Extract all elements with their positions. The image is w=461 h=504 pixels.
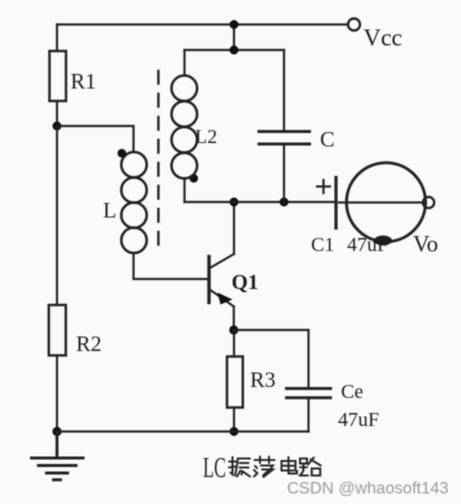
wire L2 top	[183, 50, 185, 76]
capacitor Ce	[287, 389, 331, 398]
node rail junction dot	[230, 20, 239, 29]
capacitor C	[259, 132, 310, 145]
wire tank bottom	[185, 201, 335, 203]
L phase dot	[118, 149, 127, 158]
wire L2 bottom	[183, 179, 185, 203]
wire emitter to Ce branch	[234, 329, 309, 331]
svg-text:Ce: Ce	[341, 381, 363, 403]
svg-text:CSDN @whaosoft143: CSDN @whaosoft143	[287, 480, 449, 498]
wire C branch bottom	[283, 146, 285, 203]
inductor L	[121, 152, 146, 253]
svg-text:Q1: Q1	[232, 270, 259, 294]
node C branch junction dot	[280, 198, 289, 207]
dashed core line	[157, 71, 159, 250]
wire rail link	[233, 25, 235, 51]
wire node A to L top	[57, 126, 134, 152]
wire left rail to R1	[56, 25, 58, 52]
char zhen	[229, 457, 250, 477]
svg-text:R1: R1	[71, 69, 97, 94]
resistor R2	[49, 305, 66, 355]
plus sign	[317, 180, 330, 193]
svg-text:L: L	[103, 198, 116, 223]
L2 phase dot	[190, 174, 199, 183]
Vcc terminal circle	[348, 19, 360, 31]
char dang	[254, 457, 275, 478]
wire emitter to R3	[233, 330, 235, 357]
wire Ce branch bottom	[307, 400, 309, 432]
wire bottom rail	[57, 430, 309, 432]
wire R2 bottom to ground node	[56, 355, 58, 431]
wire R3 bottom	[233, 408, 235, 432]
wire top rail Vcc	[57, 23, 348, 25]
svg-text:Vcc: Vcc	[364, 26, 403, 52]
wire C branch top	[283, 50, 285, 130]
node bottom junction dot	[230, 427, 239, 436]
resistor R3	[227, 357, 243, 408]
blob text-arc overlap	[374, 236, 392, 246]
node A junction dot	[53, 122, 62, 131]
svg-text:L2: L2	[195, 126, 217, 148]
svg-text:LC: LC	[203, 452, 226, 484]
svg-text:R3: R3	[250, 367, 276, 392]
transistor Q1	[209, 202, 234, 330]
char dian	[282, 457, 298, 474]
capacitor C1 plate	[334, 178, 337, 229]
svg-text:47uF: 47uF	[338, 409, 379, 431]
wire tank top	[185, 49, 285, 51]
ground	[32, 432, 84, 480]
inductor L2	[172, 76, 198, 179]
wire C1 to output	[339, 201, 423, 203]
resistor R1	[50, 51, 67, 101]
wire left rail node A to R2	[56, 126, 58, 305]
output meter circle Vo	[347, 163, 426, 242]
svg-text:C1: C1	[311, 234, 334, 256]
wire L bottom to Q1 base	[134, 253, 208, 279]
title CJK 振荡电路	[229, 457, 321, 478]
output terminal circle	[423, 197, 434, 208]
wire R1 bottom to node A	[56, 101, 58, 126]
node collector junction dot	[230, 198, 239, 207]
svg-text:C: C	[320, 127, 335, 152]
wire Ce branch top	[307, 330, 309, 387]
char lu	[300, 458, 321, 476]
node tank top junction dot	[230, 46, 239, 55]
svg-text:Vo: Vo	[413, 232, 438, 257]
node ground junction dot	[52, 427, 61, 436]
svg-text:R2: R2	[76, 331, 102, 356]
node emitter junction dot	[229, 325, 238, 334]
